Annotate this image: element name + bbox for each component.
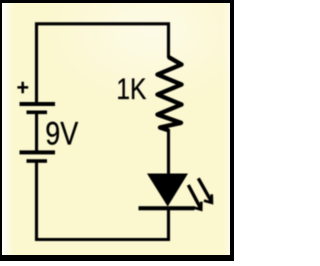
battery B1 plate long (positive, top cell) [20, 102, 56, 106]
wire: top + left upper segment (battery + to top rail to resistor) [37, 24, 169, 103]
wire: left lower + bottom rail + right lower (battery - to LED cathode) [37, 162, 169, 240]
LED D1 cathode bar [139, 206, 195, 210]
battery B1 plate long (second cell) [20, 150, 56, 154]
wire: resistor bottom to LED anode [167, 129, 170, 175]
wire between battery cells [35, 114, 38, 152]
frame border of schematic panel [0, 0, 234, 3]
LED light arrow 2 (upper right) [198, 178, 211, 201]
LED light arrow 1 (lower left) [188, 185, 201, 209]
resistor R1 zigzag [158, 57, 182, 130]
svg-text:9V: 9V [45, 116, 79, 152]
svg-text:1K: 1K [116, 73, 146, 106]
plus sign (battery positive terminal) [17, 82, 28, 94]
battery B1 plate short (second cell, negative) [27, 159, 48, 163]
battery B1 plate short (top cell) [27, 111, 48, 115]
LED D1 triangle (anode) [147, 174, 188, 207]
